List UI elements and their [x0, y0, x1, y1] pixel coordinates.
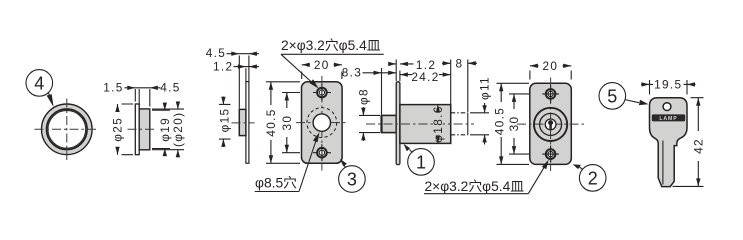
- dim 1.5 / 4.5 (collar): [103, 81, 180, 107]
- svg-text:LAMP: LAMP: [659, 116, 677, 122]
- part3 centerlines: [321, 76, 323, 171]
- svg-text:φ11: φ11: [478, 76, 492, 100]
- lock body case: [400, 105, 451, 144]
- part3 center hole phi8.5: [313, 114, 330, 131]
- dim 1.2 (part3): [213, 60, 259, 74]
- dim phi18.6 (part1): [431, 105, 445, 144]
- svg-text:20: 20: [314, 58, 330, 72]
- part2 keyhole: [548, 120, 553, 130]
- svg-text:1: 1: [416, 152, 426, 172]
- key hole: [663, 103, 671, 111]
- dim 4.5 (part3): [206, 46, 259, 60]
- part2 cylinder face circles: [534, 108, 567, 141]
- svg-text:5: 5: [607, 86, 617, 106]
- dim 8.3 (part1): [342, 66, 396, 80]
- collar front centerlines: [35, 128, 100, 130]
- svg-text:1.5: 1.5: [103, 81, 123, 95]
- extension lines (part3 top dims): [239, 56, 249, 109]
- svg-text:φ25: φ25: [111, 117, 125, 142]
- dim 1.2 (part1): [388, 58, 436, 72]
- label 2x phi3.2 hole phi5.4 countersink (top): [281, 38, 384, 89]
- dim 30 (part3): [280, 93, 300, 153]
- balloon 1: [404, 144, 435, 176]
- label phi8.5 hole: [255, 132, 320, 191]
- key groove line: [662, 141, 664, 185]
- svg-text:φ15: φ15: [218, 108, 232, 133]
- dim (phi20) (collar): [152, 101, 185, 157]
- svg-text:8: 8: [456, 57, 464, 71]
- lock cam cylinder (hidden): [451, 113, 468, 135]
- lock body flange plate: [396, 82, 400, 165]
- lock body side view (part 1): barrel: [382, 115, 397, 132]
- svg-text:2: 2: [588, 168, 598, 188]
- collar side view body: [139, 109, 150, 150]
- svg-text:φ8: φ8: [356, 88, 370, 105]
- balloon 5: [599, 83, 649, 110]
- key LAMP band: [652, 114, 685, 122]
- collar front view (part 4): outer ring: [42, 104, 93, 155]
- dim 40.5 (part3): [264, 82, 300, 164]
- dim 30 (part2): [507, 94, 530, 154]
- side view centerline: [232, 122, 255, 124]
- dim 42 (key): [673, 98, 706, 187]
- svg-text:30: 30: [280, 115, 294, 131]
- svg-text:4.5: 4.5: [206, 46, 226, 60]
- part2 bottom countersunk hole: [542, 146, 559, 163]
- svg-text:19.5: 19.5: [654, 78, 682, 92]
- dim 24.2 (part1): [400, 70, 451, 84]
- svg-text:φ19: φ19: [158, 117, 172, 142]
- svg-text:4: 4: [34, 73, 44, 93]
- key (part 5) head and blade: [650, 98, 688, 187]
- label 2x phi3.2 hole phi5.4 countersink (bottom): [424, 160, 549, 194]
- lock front plate (part 2): [530, 83, 572, 164]
- svg-text:42: 42: [691, 138, 705, 154]
- svg-text:1.2: 1.2: [213, 60, 233, 74]
- balloon 2: [573, 164, 606, 191]
- part3 bottom countersunk hole: [317, 144, 327, 161]
- balloon 3: [339, 159, 366, 192]
- part3 dashed circle phi15: [307, 108, 337, 138]
- strike plate front view (part 3): [302, 82, 343, 164]
- svg-text:20: 20: [542, 59, 558, 73]
- part2 top countersunk hole: [542, 85, 559, 102]
- svg-text:2×φ3.2穴φ5.4皿: 2×φ3.2穴φ5.4皿: [281, 38, 381, 53]
- extension lines (part1 top): [382, 60, 468, 115]
- collar side view (part 4): flange: [135, 104, 139, 155]
- svg-text:24.2: 24.2: [411, 70, 439, 84]
- svg-text:30: 30: [507, 116, 521, 132]
- dim 20 (part2): [530, 59, 571, 80]
- svg-text:4.5: 4.5: [160, 81, 180, 95]
- svg-text:8.3: 8.3: [342, 66, 362, 80]
- balloon 4: [26, 70, 54, 108]
- part2 centerlines: [550, 78, 552, 172]
- dim phi25 (collar): [111, 104, 134, 155]
- dim phi15 (part3): [218, 97, 232, 148]
- dim 8 (part1 rear): [442, 57, 477, 71]
- svg-text:40.5: 40.5: [264, 108, 278, 136]
- dim 40.5 (part2): [493, 83, 530, 164]
- strike plate side view (part 3): plate: [246, 82, 249, 164]
- collar side centerline: [128, 128, 157, 130]
- svg-text:φ8.5穴: φ8.5穴: [255, 176, 297, 191]
- dim phi8 (part1): [356, 88, 380, 141]
- dim phi11 (part1 rear): [470, 76, 492, 144]
- svg-text:3: 3: [347, 170, 357, 190]
- strike plate side view boss: [239, 109, 246, 135]
- svg-text:40.5: 40.5: [493, 107, 507, 135]
- dim phi19 (collar): [152, 103, 172, 157]
- svg-text:2×φ3.2穴φ5.4皿: 2×φ3.2穴φ5.4皿: [425, 179, 525, 194]
- part1 centerline: [366, 123, 474, 125]
- dim 20 (part3): [302, 58, 342, 79]
- part3 top countersunk hole: [317, 84, 327, 101]
- svg-text:(φ20): (φ20): [171, 112, 185, 147]
- dim 19.5 (key): [641, 78, 696, 95]
